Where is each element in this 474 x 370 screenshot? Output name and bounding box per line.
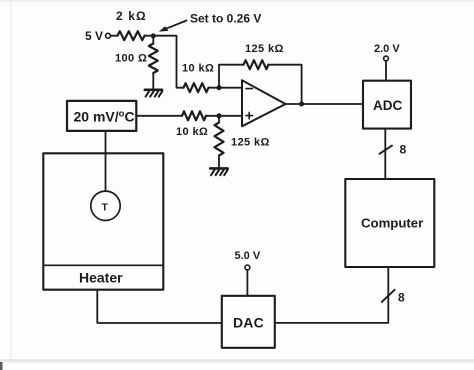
- resistor 2 kOhm: [118, 31, 145, 40]
- Computer box: [345, 179, 434, 267]
- ground: [210, 168, 228, 175]
- svg-text:2.0 V: 2.0 V: [374, 43, 400, 55]
- wire: [153, 36, 183, 88]
- svg-text:T: T: [102, 202, 109, 214]
- svg-text:2 kΩ: 2 kΩ: [116, 9, 147, 23]
- terminal 5.0 V: [245, 265, 250, 270]
- wire: [209, 87, 243, 89]
- node op-amp output junction: [299, 102, 304, 107]
- Heater box: [43, 153, 163, 289]
- svg-text:8: 8: [400, 143, 407, 157]
- bus slash 8 (top): [380, 146, 393, 154]
- ground: [145, 90, 163, 97]
- wire: [286, 103, 364, 105]
- svg-text:5.0 V: 5.0 V: [235, 250, 261, 262]
- node set-point junction: [151, 33, 156, 38]
- svg-text:125 kΩ: 125 kΩ: [245, 43, 284, 55]
- svg-text:5 V: 5 V: [85, 29, 103, 43]
- svg-text:125 kΩ: 125 kΩ: [231, 137, 270, 149]
- resistor 100 Ohm: [149, 38, 158, 89]
- svg-text:10 kΩ: 10 kΩ: [182, 63, 214, 75]
- svg-text:100 Ω: 100 Ω: [115, 53, 147, 65]
- wire DAC to heater: [97, 290, 222, 323]
- svg-text:ADC: ADC: [373, 98, 402, 113]
- bus slash 8 (bottom): [382, 290, 395, 302]
- wire: [385, 61, 387, 81]
- resistor 10 kOhm (bottom): [182, 111, 206, 120]
- wire sensor to box: [105, 132, 107, 191]
- svg-text:Heater: Heater: [79, 270, 123, 286]
- DAC box: [222, 296, 275, 348]
- wire: [136, 115, 182, 117]
- svg-text:Set to 0.26 V: Set to 0.26 V: [190, 12, 261, 26]
- sensor T circle: [91, 191, 120, 220]
- sensor box 20 mV/C: [67, 101, 136, 131]
- terminal 5 V: [106, 33, 111, 38]
- wire: [219, 65, 244, 88]
- wire: [269, 65, 302, 104]
- resistor 10 kOhm (top): [184, 83, 209, 92]
- arrow pointer to set node: [159, 21, 187, 32]
- wire: [110, 35, 117, 37]
- op-amp: [242, 80, 286, 126]
- node non-inverting input junction: [217, 113, 222, 118]
- terminal 2.0 V: [384, 56, 389, 61]
- wire: [145, 35, 154, 37]
- node inverting input junction: [217, 85, 222, 90]
- resistor 125 kOhm (to ground): [215, 116, 224, 168]
- svg-text:Computer: Computer: [361, 216, 423, 231]
- svg-text:8: 8: [398, 291, 405, 305]
- svg-text:10 kΩ: 10 kΩ: [176, 126, 208, 138]
- resistor 125 kOhm (feedback): [244, 60, 269, 69]
- svg-text:20 mV/oC: 20 mV/oC: [74, 109, 135, 125]
- svg-text:DAC: DAC: [233, 315, 264, 331]
- wire: [246, 270, 248, 296]
- wire computer to DAC bus: [275, 267, 389, 323]
- ADC box: [363, 81, 411, 129]
- wire ADC to computer bus: [384, 129, 386, 179]
- wire: [206, 115, 242, 117]
